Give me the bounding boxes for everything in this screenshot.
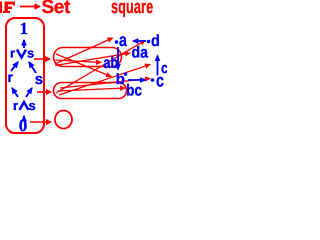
title F (blackboard bold, cropped at left) — [0, 2, 15, 14]
svg-text:s: s — [29, 98, 36, 113]
lower set oval — [54, 83, 127, 99]
arrow r^s to s — [26, 88, 32, 97]
map to vertex b — [56, 54, 111, 77]
svg-text:Set: Set — [42, 0, 71, 18]
arrow s to rvs — [29, 62, 36, 73]
svg-text:d: d — [151, 33, 160, 50]
svg-text:r: r — [10, 46, 15, 61]
svg-text:bc: bc — [126, 83, 142, 100]
category box (rounded rect) — [6, 18, 44, 133]
svg-text:ab: ab — [104, 55, 119, 72]
svg-text:a: a — [119, 30, 128, 50]
arrow 0 to r^s — [23, 116, 25, 121]
map to vertex c — [60, 79, 150, 89]
svg-text:square: square — [111, 0, 153, 18]
functor arrow to empty set — [30, 121, 51, 123]
edge d to a — [133, 40, 146, 42]
map to vertex a — [55, 38, 113, 64]
edge c to d — [157, 56, 159, 76]
arrow r^s to r — [12, 88, 18, 97]
svg-text:cd: cd — [161, 60, 167, 77]
svg-text:s: s — [27, 46, 34, 61]
svg-text:1: 1 — [20, 19, 29, 38]
map to vertex d — [56, 41, 145, 94]
svg-text:b: b — [116, 71, 125, 88]
vertex b dot — [124, 72, 128, 76]
functor arrow to lower set — [37, 91, 51, 93]
arrow r to rvs — [11, 62, 18, 71]
title arrow — [20, 6, 40, 8]
edge b to c — [128, 79, 146, 81]
vertex d dot — [147, 40, 151, 44]
svg-text:r: r — [13, 98, 18, 113]
svg-text:r: r — [8, 69, 14, 85]
map to edge ab — [56, 60, 102, 63]
empty set circle — [55, 111, 72, 129]
svg-text:s: s — [35, 71, 43, 88]
edge a to b — [117, 47, 119, 70]
vertex a dot — [115, 40, 119, 44]
svg-text:da: da — [132, 44, 149, 61]
upper set oval — [54, 48, 122, 67]
map to edge cd — [59, 65, 150, 96]
map to edge bc — [58, 88, 125, 91]
map to edge da — [55, 53, 130, 66]
arrow rvs to 1 — [23, 40, 25, 48]
functor arrow to upper set — [34, 58, 50, 60]
vertex c dot — [151, 78, 155, 82]
